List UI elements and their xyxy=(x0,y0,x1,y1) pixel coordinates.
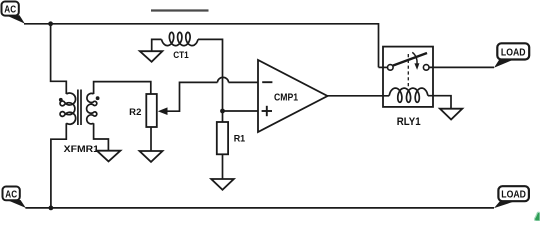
CMP1 plus glyph xyxy=(262,110,272,112)
svg-text:AC: AC xyxy=(5,189,17,200)
RLY1 switch blade xyxy=(393,53,427,66)
ground XFMR1 secondary xyxy=(97,151,121,162)
port LOAD bottom xyxy=(494,186,529,208)
svg-text:CMP1: CMP1 xyxy=(274,92,298,103)
svg-text:XFMR1: XFMR1 xyxy=(64,144,100,155)
svg-text:LOAD: LOAD xyxy=(501,47,526,59)
CMP1 minus glyph xyxy=(262,81,272,83)
junction top rail xyxy=(48,21,53,26)
wire RLY1 switch to LOAD xyxy=(429,66,494,68)
svg-text:AC: AC xyxy=(4,5,16,16)
ground RLY1 xyxy=(440,109,462,120)
RLY1 switch left pin wire xyxy=(379,66,388,68)
svg-text:RLY1: RLY1 xyxy=(397,116,421,128)
XFMR1 secondary phase dot xyxy=(96,96,100,100)
R2 wiper arrow xyxy=(158,107,168,115)
wire R2 wiper to CMP1 inverting input xyxy=(166,82,218,111)
svg-text:R2: R2 xyxy=(129,107,141,118)
resistor R1 xyxy=(217,122,228,154)
op-amp CMP1 xyxy=(258,60,328,132)
RLY1 motion arrow xyxy=(412,52,417,64)
wire CT1 to node A xyxy=(198,39,223,122)
ground R2 xyxy=(140,151,163,162)
wire top rail xyxy=(24,24,379,68)
ground R1 xyxy=(211,179,234,190)
RLY1 switch left contact circle xyxy=(388,65,394,71)
transformer XFMR1 primary winding xyxy=(60,93,76,124)
relay RLY1 box xyxy=(383,47,433,107)
wire CT1 ground stem xyxy=(152,39,162,51)
wire XFMR1 primary to bottom rail xyxy=(51,123,66,208)
wire R2 bottom to ground xyxy=(150,127,152,151)
wire R1 to ground xyxy=(222,154,224,179)
wire bottom rail xyxy=(25,207,494,209)
wire RLY1 coil to ground xyxy=(428,96,451,109)
wire CMP1 output to RLY1 coil xyxy=(328,95,390,97)
junction bottom rail xyxy=(49,206,54,211)
RLY1 switch right contact circle xyxy=(423,65,429,71)
svg-text:CT1: CT1 xyxy=(173,50,189,60)
relay RLY1 coil xyxy=(389,88,428,102)
RLY1 mechanical link (dashed) xyxy=(407,54,409,88)
green watermark corner xyxy=(535,212,540,221)
wire XFMR1 secondary bottom to ground xyxy=(94,123,109,151)
svg-text:R1: R1 xyxy=(234,133,246,144)
transformer XFMR1 core xyxy=(77,90,79,126)
port AC bottom xyxy=(3,187,26,208)
wire AC to XFMR1 primary xyxy=(51,24,67,94)
XFMR1 primary phase dot xyxy=(59,98,63,102)
port LOAD top xyxy=(494,43,529,67)
wire hop over CT1 drop xyxy=(218,77,229,82)
svg-text:LOAD: LOAD xyxy=(501,189,526,201)
transformer XFMR1 secondary winding xyxy=(87,93,97,123)
inductor CT1 xyxy=(162,32,199,45)
port AC top xyxy=(2,2,25,24)
ground CT1 xyxy=(140,51,163,62)
junction node A xyxy=(220,109,225,114)
potentiometer R2 xyxy=(146,94,157,127)
wire node A to CMP1 noninverting input xyxy=(223,110,258,112)
wire XFMR1 secondary top to R2 xyxy=(94,82,151,94)
title line xyxy=(151,9,209,11)
